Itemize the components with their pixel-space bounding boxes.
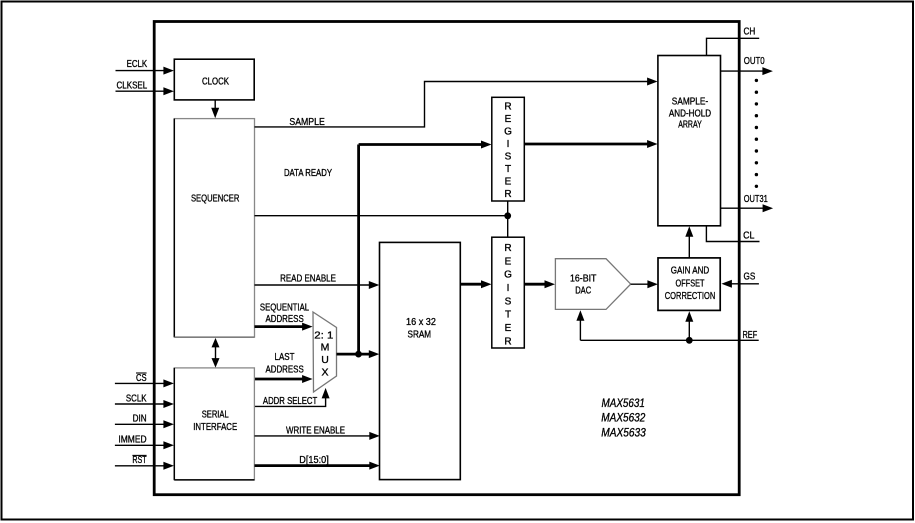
svg-text:DATA READY: DATA READY — [284, 167, 332, 179]
svg-text:16-BIT: 16-BIT — [570, 272, 597, 284]
block CLOCK — [174, 59, 254, 100]
svg-text:U: U — [321, 354, 329, 366]
svg-text:16 x 32: 16 x 32 — [406, 316, 436, 328]
block 16x32 SRAM — [380, 242, 461, 479]
svg-text:DAC: DAC — [575, 284, 591, 296]
svg-text:CS: CS — [136, 372, 147, 384]
svg-text:E: E — [505, 256, 512, 267]
svg-text:MAX5633: MAX5633 — [601, 425, 646, 439]
svg-text:ARRAY: ARRAY — [678, 119, 702, 131]
svg-text:DIN: DIN — [133, 413, 147, 425]
svg-text:OUT0: OUT0 — [744, 55, 765, 67]
svg-text:GS: GS — [744, 271, 756, 283]
svg-text:CORRECTION: CORRECTION — [665, 290, 716, 302]
svg-text:WRITE ENABLE: WRITE ENABLE — [286, 425, 345, 437]
svg-text:IMMED: IMMED — [118, 434, 147, 446]
svg-text:ADDRESS: ADDRESS — [265, 364, 303, 376]
chip boundary box — [154, 22, 739, 495]
D[15:0] bus — [255, 464, 374, 467]
svg-text:X: X — [321, 366, 328, 378]
register1-register2 link wire — [507, 201, 509, 237]
SAMPLE wire — [255, 82, 652, 127]
junction at register link — [504, 212, 511, 219]
SEQUENTIAL ADDRESS bus — [255, 325, 307, 328]
CLKSEL input wire — [116, 90, 168, 92]
svg-text:AND-HOLD: AND-HOLD — [669, 107, 712, 119]
svg-text:RST: RST — [132, 454, 147, 466]
svg-text:ADDRESS: ADDRESS — [265, 313, 303, 325]
CH wire — [707, 38, 760, 55]
svg-text:LAST: LAST — [275, 351, 295, 363]
DATA READY bus vertical — [357, 145, 360, 355]
svg-text:SEQUENTIAL: SEQUENTIAL — [260, 301, 309, 313]
CL wire — [706, 226, 759, 242]
block GAIN AND OFFSET CORRECTION — [658, 258, 720, 311]
svg-text:READ ENABLE: READ ENABLE — [280, 273, 336, 285]
svg-text:ADDR SELECT: ADDR SELECT — [263, 395, 318, 407]
svg-text:CL: CL — [743, 229, 754, 241]
gain to sample-hold wire — [688, 233, 690, 258]
WRITE ENABLE wire — [255, 435, 374, 437]
register 1 (top) — [492, 97, 525, 201]
svg-text:ECLK: ECLK — [127, 58, 148, 70]
svg-text:CH: CH — [744, 26, 756, 38]
REF wire — [580, 339, 758, 341]
block SERIAL INTERFACE — [174, 368, 254, 480]
svg-text:S: S — [505, 152, 512, 163]
block SEQUENCER — [174, 119, 254, 338]
svg-text:MAX5632: MAX5632 — [601, 411, 645, 425]
svg-text:OFFSET: OFFSET — [676, 277, 705, 289]
svg-text:SAMPLE-: SAMPLE- — [672, 95, 709, 107]
svg-text:T: T — [505, 310, 511, 321]
svg-text:MAX5631: MAX5631 — [602, 396, 645, 410]
svg-text:G: G — [504, 270, 512, 281]
svg-text:T: T — [505, 164, 511, 175]
DATA READY bus into register — [359, 143, 486, 146]
svg-text:G: G — [504, 126, 512, 137]
svg-text:REF: REF — [743, 329, 758, 341]
16-bit DAC — [555, 259, 630, 310]
ADDR SELECT wire — [255, 397, 326, 407]
svg-text:M: M — [321, 342, 330, 354]
sequencer-serial bidirectional wire — [215, 345, 217, 362]
svg-text:INTERFACE: INTERFACE — [193, 421, 237, 433]
svg-text:E: E — [505, 177, 512, 188]
LAST ADDRESS bus — [255, 378, 307, 381]
register-load stub wire — [255, 215, 508, 217]
OUT31 wire — [721, 207, 768, 209]
ECLK input wire — [116, 70, 168, 72]
IMMED input wire — [115, 444, 168, 446]
svg-text:SERIAL: SERIAL — [202, 408, 229, 420]
svg-text:S: S — [505, 296, 512, 307]
svg-text:R: R — [504, 189, 511, 200]
svg-text:E: E — [505, 114, 512, 125]
svg-text:CLOCK: CLOCK — [202, 76, 229, 88]
CS input wire — [115, 382, 168, 384]
mux output bus — [337, 353, 374, 356]
register1 to sample-hold bus — [524, 143, 651, 146]
svg-text:I: I — [507, 139, 510, 150]
svg-text:SCLK: SCLK — [126, 392, 147, 404]
svg-text:E: E — [505, 323, 512, 334]
svg-text:SAMPLE: SAMPLE — [289, 116, 324, 128]
READ ENABLE wire — [255, 284, 374, 286]
svg-text:I: I — [507, 283, 510, 294]
svg-text:R: R — [504, 243, 511, 254]
svg-text:OUT31: OUT31 — [744, 193, 768, 205]
dac to gain wire — [631, 283, 652, 285]
svg-text:2: 1: 2: 1 — [314, 329, 333, 341]
mux 2:1 — [313, 312, 337, 392]
block SAMPLE-AND-HOLD ARRAY — [658, 56, 721, 226]
svg-text:CLKSEL: CLKSEL — [117, 79, 148, 91]
svg-text:SEQUENCER: SEQUENCER — [191, 193, 240, 205]
junction mux output — [355, 351, 362, 358]
clock-to-sequencer wire — [214, 100, 216, 111]
register2 to dac bus — [524, 283, 549, 286]
register 2 (bottom) — [492, 237, 525, 348]
RST input wire — [115, 465, 168, 467]
svg-text:SRAM: SRAM — [408, 328, 432, 340]
DIN input wire — [115, 423, 168, 425]
SCLK input wire — [115, 403, 168, 405]
junction REF — [686, 337, 693, 344]
output dots column — [755, 79, 758, 82]
svg-text:D[15:0]: D[15:0] — [299, 454, 329, 466]
GS wire — [727, 283, 759, 285]
svg-text:GAIN AND: GAIN AND — [671, 265, 710, 277]
svg-text:R: R — [504, 101, 511, 112]
sram to register2 bus — [460, 283, 485, 286]
svg-text:R: R — [504, 336, 511, 347]
OUT0 wire — [721, 70, 768, 72]
